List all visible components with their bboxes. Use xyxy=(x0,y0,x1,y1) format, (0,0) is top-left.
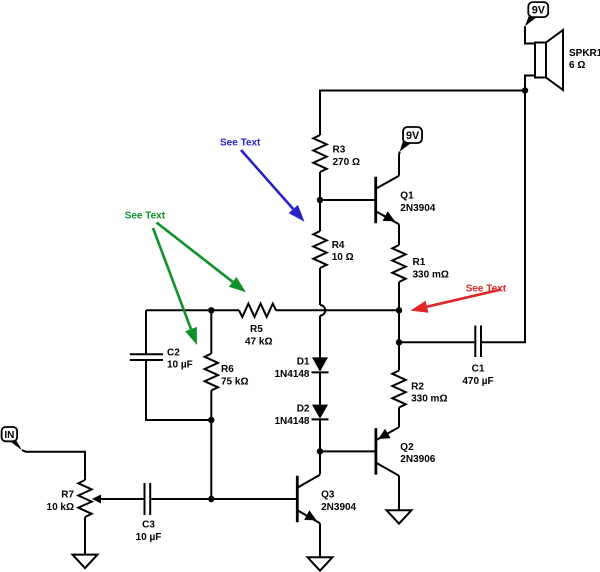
wire 9V flag to Q1 collector xyxy=(398,152,401,176)
node D junction dot xyxy=(396,339,402,345)
svg-text:D2: D2 xyxy=(297,403,310,414)
resistor R1 xyxy=(392,245,405,282)
wire IN to R7 top xyxy=(22,450,85,480)
svg-text:R4: R4 xyxy=(332,240,345,251)
svg-text:2N3904: 2N3904 xyxy=(400,203,435,214)
capacitor C1 xyxy=(474,326,476,358)
speaker SPKR1 xyxy=(535,43,546,78)
blue annotation arrow xyxy=(241,150,293,209)
diode D1 xyxy=(312,357,328,371)
svg-text:C1: C1 xyxy=(472,364,485,375)
svg-text:Q1: Q1 xyxy=(400,191,414,202)
wire C3 to Q3 base xyxy=(151,498,296,500)
svg-text:Q2: Q2 xyxy=(400,442,414,453)
svg-text:330 mΩ: 330 mΩ xyxy=(413,269,449,280)
svg-text:6 Ω: 6 Ω xyxy=(569,60,585,71)
wire Q1 emitter to R1 xyxy=(398,224,400,245)
svg-text:R1: R1 xyxy=(413,257,426,268)
wire R6 bottom xyxy=(210,391,212,421)
transistor Q2 2N3906 xyxy=(374,428,377,475)
svg-text:C2: C2 xyxy=(167,348,180,359)
junction dot speaker/top rail/right rail xyxy=(522,87,528,93)
wire Q2 collector to ground xyxy=(398,476,400,511)
svg-text:See Text: See Text xyxy=(125,210,166,221)
junction dot lower C2/R6 rail xyxy=(208,417,214,423)
wire C1 to right rail xyxy=(482,91,525,343)
node C junction dot xyxy=(396,307,402,313)
wire node B to Q3 collector xyxy=(319,451,321,474)
svg-text:270 Ω: 270 Ω xyxy=(333,157,360,168)
svg-text:R2: R2 xyxy=(411,381,424,392)
junction dot on Q3 base net xyxy=(208,496,214,502)
9V supply flag at Q1 xyxy=(403,127,422,143)
capacitor C2 xyxy=(130,353,163,355)
green annotation arrow to R5 xyxy=(157,223,233,282)
potentiometer R7 xyxy=(78,480,91,517)
wire R2 to Q2 emitter xyxy=(398,408,400,428)
wire R4 bottom to hop xyxy=(319,268,321,305)
svg-text:C3: C3 xyxy=(142,520,155,531)
wire C2 bottom to lower rail xyxy=(146,361,211,420)
svg-text:R5: R5 xyxy=(250,324,263,335)
diode D2 xyxy=(312,405,328,419)
red annotation arrow to node C xyxy=(427,290,501,307)
svg-text:See Text: See Text xyxy=(220,138,261,149)
svg-text:47 kΩ: 47 kΩ xyxy=(245,336,272,347)
resistor R5 xyxy=(239,304,276,317)
wire R1 to node C xyxy=(398,282,400,310)
svg-text:Q3: Q3 xyxy=(321,490,335,501)
wire R7 wiper to C3 xyxy=(101,498,144,500)
node B junction dot xyxy=(317,448,323,454)
svg-text:IN: IN xyxy=(4,430,14,441)
wire R5 net left segment (C2 top to R5) xyxy=(146,309,239,311)
resistor R3 xyxy=(313,135,326,172)
svg-text:1N4148: 1N4148 xyxy=(274,416,309,427)
wire down to Q3 base net xyxy=(210,420,212,499)
wire D1 to D2 xyxy=(319,372,321,404)
junction dot C2/R6/R5 xyxy=(208,307,214,313)
resistor R6 xyxy=(210,310,212,353)
ground at Q3 xyxy=(308,557,333,571)
wire D2 to node B xyxy=(319,419,321,451)
wire top rail and R3 top lead xyxy=(320,91,525,136)
wire hop over R5 net xyxy=(320,305,325,316)
wire node A to R4 xyxy=(319,200,321,231)
wire Q3 emitter to ground xyxy=(319,523,321,557)
ground at Q2 xyxy=(387,510,412,524)
node A junction dot xyxy=(317,197,323,203)
svg-text:9V: 9V xyxy=(532,5,546,17)
wire speaker bottom to top rail xyxy=(525,76,535,91)
wire node B to Q2 base xyxy=(320,450,376,452)
svg-text:SPKR1: SPKR1 xyxy=(569,48,600,59)
transistor Q1 2N3904 xyxy=(374,177,377,224)
capacitor C3 xyxy=(144,483,146,515)
svg-text:D1: D1 xyxy=(297,356,310,367)
wire hop to D1 xyxy=(319,316,321,358)
svg-text:10 µF: 10 µF xyxy=(167,360,193,371)
wire R7 bottom to ground xyxy=(84,517,86,555)
svg-text:R6: R6 xyxy=(221,364,234,375)
svg-text:10 Ω: 10 Ω xyxy=(332,252,354,263)
svg-text:330 mΩ: 330 mΩ xyxy=(411,394,447,405)
svg-text:R3: R3 xyxy=(333,144,346,155)
svg-text:1N4148: 1N4148 xyxy=(274,369,309,380)
ground at R7 xyxy=(73,555,98,569)
wire R3 bottom to node A xyxy=(319,172,321,200)
svg-text:R7: R7 xyxy=(61,489,74,500)
resistor R4 xyxy=(313,231,326,268)
svg-text:10 kΩ: 10 kΩ xyxy=(47,502,74,513)
svg-text:2N3906: 2N3906 xyxy=(400,454,435,465)
9V supply flag at speaker xyxy=(528,2,548,17)
input flag IN xyxy=(2,427,18,441)
wire node C to node D xyxy=(398,310,400,342)
resistor R2 xyxy=(392,371,405,408)
transistor Q3 2N3904 xyxy=(296,476,299,523)
wire node D to R2 xyxy=(398,342,400,370)
wire 9V flag to speaker top xyxy=(525,26,535,43)
wire node A to Q1 base xyxy=(320,199,376,201)
svg-text:9V: 9V xyxy=(406,130,420,142)
svg-text:470 µF: 470 µF xyxy=(462,376,493,387)
wire R5 to node C xyxy=(276,309,399,311)
svg-text:75 kΩ: 75 kΩ xyxy=(221,376,248,387)
green annotation arrow to R6 xyxy=(153,228,191,329)
svg-text:10 µF: 10 µF xyxy=(136,532,162,543)
svg-text:2N3904: 2N3904 xyxy=(321,502,356,513)
wire C2 top lead xyxy=(145,310,147,353)
wire node D to C1 xyxy=(399,341,474,343)
